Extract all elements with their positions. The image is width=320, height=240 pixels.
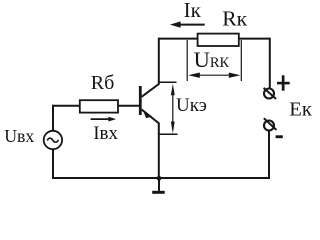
- svg-text:URК: URК: [194, 47, 230, 72]
- svg-text:Rб: Rб: [91, 72, 115, 94]
- svg-text:Uвх: Uвх: [4, 126, 34, 146]
- svg-text:Rк: Rк: [222, 7, 247, 31]
- svg-text:Eк: Eк: [289, 99, 312, 121]
- svg-text:Iвх: Iвх: [93, 123, 118, 144]
- svg-text:Uкэ: Uкэ: [176, 95, 207, 116]
- svg-text:Iк: Iк: [184, 0, 202, 22]
